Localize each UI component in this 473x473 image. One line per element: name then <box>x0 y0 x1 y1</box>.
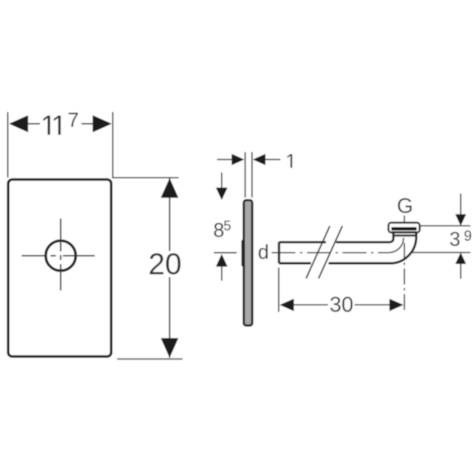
dim 8.5 top arrow <box>216 188 228 200</box>
extension line right for dim 1 <box>251 152 253 198</box>
flange inner band <box>391 227 416 230</box>
pipe inner bend fillet <box>390 233 393 242</box>
dim 3.9 bottom arrow tail <box>460 264 462 279</box>
plate drain bump <box>241 240 244 267</box>
dim 30 left stub <box>294 304 328 306</box>
label 1 <box>287 154 292 168</box>
pipe end cap <box>278 242 280 263</box>
label G <box>398 198 412 213</box>
dim 20 line upper <box>169 178 171 251</box>
dim 3.9 top extension line <box>420 225 470 227</box>
dim 1 left arrow <box>232 154 245 165</box>
dim 1 left tail <box>217 159 232 161</box>
centerline vertical of circle <box>60 219 62 291</box>
pipe outer bend arc <box>390 233 416 263</box>
extension line left for dim 1 <box>244 152 246 198</box>
dim 8.5 top arrow tail <box>221 173 223 188</box>
pipe bottom line <box>279 262 390 264</box>
dim 11.7 right arrow <box>93 115 112 132</box>
dim 3.9 top arrow <box>455 214 466 226</box>
plate side view <box>244 200 252 325</box>
pipe break mark 1 <box>306 226 330 278</box>
pipe break mark 2 <box>319 226 343 278</box>
pipe top line <box>279 241 390 243</box>
dim 30 right stub <box>355 304 390 306</box>
extension line bottom for dim 20 <box>117 358 183 360</box>
extension line right for dim 11.7 <box>112 112 114 178</box>
cover plate front view <box>8 180 111 357</box>
label 11 superscript 7 <box>43 116 50 135</box>
label 30 <box>330 297 340 312</box>
label d <box>259 244 268 259</box>
extension line left for dim 11.7 <box>7 112 9 178</box>
dim 30 left extension line <box>278 268 280 312</box>
label 8 superscript 5 <box>214 223 223 237</box>
label 20 <box>150 253 164 274</box>
extension line at d level <box>214 252 237 254</box>
dim 1 right tail <box>265 159 280 161</box>
dim 3.9 bottom arrow <box>455 253 466 265</box>
pipe centerline vertical dash-dot <box>403 243 405 313</box>
dim 30 right arrow <box>389 299 403 311</box>
dim 8.5 bottom arrow tail <box>221 267 223 281</box>
flange body <box>388 223 419 233</box>
thread seal band below flange <box>394 234 416 236</box>
dim 11.7 left stub <box>28 123 40 125</box>
G leader line <box>403 216 405 223</box>
dim 8.5 bottom arrow <box>216 254 228 267</box>
dim 3.9 top arrow tail <box>460 194 462 215</box>
extension line top for dim 20 <box>112 177 179 179</box>
dim 20 bottom arrow <box>161 338 179 358</box>
centerline horizontal of circle <box>22 255 95 257</box>
pipe centerline bend arc <box>389 238 404 253</box>
dim 30 left arrow <box>280 299 294 311</box>
label 3 superscript 9 <box>450 232 459 246</box>
dim 20 line lower <box>169 277 171 358</box>
dim 1 right arrow <box>253 154 266 165</box>
dim 11.7 right stub <box>82 123 93 125</box>
dim 11.7 left arrow <box>9 115 28 132</box>
pipe centerline horizontal dash-dot <box>272 252 389 254</box>
actuator circle <box>46 241 76 271</box>
dim 3.9 bottom extension line <box>413 252 471 254</box>
dim 20 top arrow <box>161 178 179 198</box>
